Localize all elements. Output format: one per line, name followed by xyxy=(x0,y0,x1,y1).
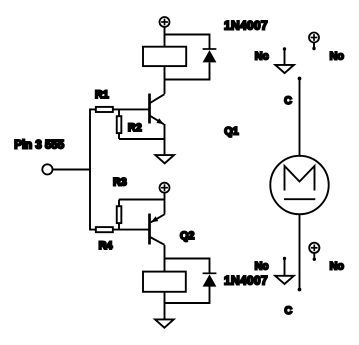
power +V supply (top) xyxy=(160,17,170,27)
ground (relay K2) xyxy=(155,319,174,327)
node Nc contact (bottom) xyxy=(275,257,294,284)
svg-text:R2: R2 xyxy=(128,122,142,134)
wire input to left rail xyxy=(53,169,90,171)
svg-text:C: C xyxy=(284,305,292,317)
svg-text:Nc: Nc xyxy=(255,50,269,62)
motor M1 xyxy=(270,156,328,214)
wire Q1 emitter down xyxy=(164,124,166,155)
svg-text:Nc: Nc xyxy=(255,260,269,272)
node Nc contact (top) xyxy=(275,47,294,73)
svg-text:R3: R3 xyxy=(113,177,127,189)
resistor R2 xyxy=(117,109,122,139)
wire R3 top to Q2 emitter node xyxy=(119,199,165,201)
svg-text:1N4007: 1N4007 xyxy=(224,273,268,287)
wire R4 to Q2 base xyxy=(113,229,150,231)
power +V supply (Q2 emitter) xyxy=(160,183,170,193)
svg-text:R4: R4 xyxy=(99,240,113,252)
wire +V to Q2 emitter node xyxy=(164,193,166,215)
svg-text:R1: R1 xyxy=(95,89,109,101)
relay coil K1 (top) xyxy=(143,47,186,66)
wire branch to diode D1 cathode xyxy=(165,35,210,49)
power +V supply (No bottom) xyxy=(309,243,319,261)
wire R2 bottom to emitter xyxy=(119,138,165,140)
relay coil K2 (bottom) xyxy=(143,272,186,292)
transistor Q1 (NPN) xyxy=(150,94,165,125)
wire Q2 collector to relay K2 xyxy=(164,245,166,271)
input terminal Pin 3 555 xyxy=(42,164,52,174)
svg-text:Q1: Q1 xyxy=(224,125,238,137)
wire relay K2 bottom to ground xyxy=(164,293,166,320)
node C (bottom) wire from motor xyxy=(298,215,302,292)
svg-text:Pin 3 555: Pin 3 555 xyxy=(14,140,64,152)
wire +V to relay K1 top xyxy=(164,27,166,46)
resistor R3 xyxy=(117,200,122,230)
wire relay K1 bottom to Q1 collector xyxy=(164,67,166,95)
diode D2 1N4007 xyxy=(203,273,217,286)
svg-text:C: C xyxy=(284,95,292,107)
wire diode D2 anode to relay K2 bottom xyxy=(165,287,210,304)
diode D1 1N4007 xyxy=(203,49,217,62)
transistor Q2 (PNP) xyxy=(150,214,165,245)
power +V supply (No top) xyxy=(309,33,319,51)
node C (top) wire to motor xyxy=(298,77,302,156)
svg-text:No: No xyxy=(330,50,345,62)
ground (Q1 emitter) xyxy=(155,155,174,163)
svg-text:Q2: Q2 xyxy=(180,230,194,242)
wire branch to diode D2 cathode xyxy=(165,259,210,273)
resistor R1 xyxy=(96,107,113,112)
wire left rail (R1 to R4) xyxy=(90,109,96,229)
wire R1 to Q1 base xyxy=(113,108,150,110)
wire junction to diode D1 anode xyxy=(165,63,210,80)
resistor R4 xyxy=(96,227,113,232)
svg-text:No: No xyxy=(330,260,345,272)
svg-text:1N4007: 1N4007 xyxy=(224,19,268,33)
